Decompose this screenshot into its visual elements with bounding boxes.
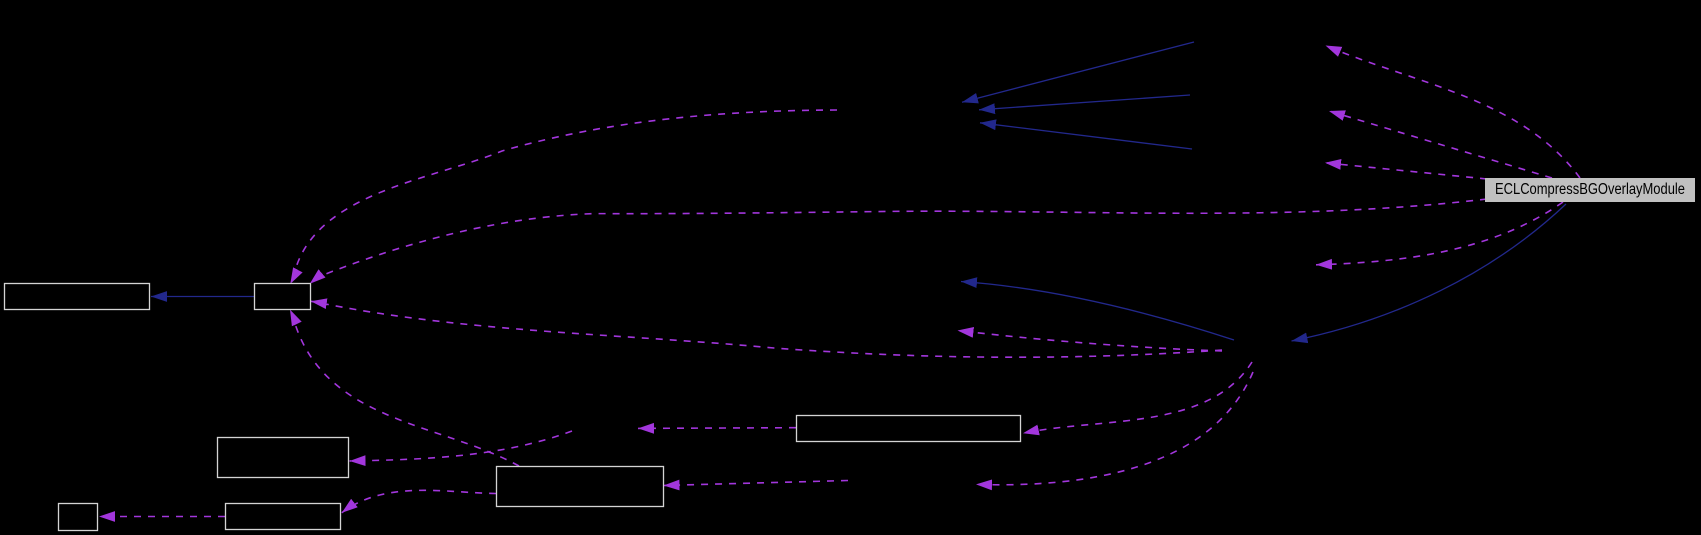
wire: dashed edge I2 to node D [664,481,849,486]
wire: dashed edge H to top target 1 [1326,46,1581,179]
node E [797,416,1021,442]
node A [5,284,150,310]
wire: blue edge hub node to invisible node Y [961,282,1234,341]
wire: dashed edge D to node G [342,490,496,512]
wire: dashed edge H to mid target [1316,202,1563,265]
node B [255,284,311,310]
node ECLCompressBGOverlayModule [1486,179,1695,202]
node C [218,438,349,478]
wire: dashed edge H to node B long [310,199,1487,284]
wire: blue edge invisible node to invisible node top 3 [980,123,1192,149]
wire: blue edge invisible node to invisible node top 1 [962,42,1194,102]
wire: blue edge invisible node to invisible node top 2 [979,95,1190,110]
wire: dashed edge invisible node X to node B arc [290,110,837,284]
wire: dashed edge hub to node E [1023,362,1252,433]
node G [226,504,341,530]
wire: dashed edge hub to invisible mid-left [958,331,1223,352]
wire: dashed edge G to node F [99,516,225,518]
svg-text:ECLCompressBGOverlayModule: ECLCompressBGOverlayModule [1495,181,1685,198]
wire: dashed edge H to top target 2 [1329,111,1552,178]
wire: blue edge node B to node A [151,296,254,298]
node D [497,467,664,507]
wire: dashed edge E to invisible node I3 [638,427,796,430]
wire: dashed edge D to node B bottom [290,310,519,466]
wire: dashed edge hub to node B right [311,301,1222,357]
node F [59,504,98,531]
wire: dashed edge H to top target 3 [1325,163,1487,179]
wire: dashed edge I3 to node C [350,431,573,461]
wire: dashed edge hub to invisible node I2 [976,372,1253,485]
wire: blue edge ECLCompressBGOverlayModule to hub node [1292,204,1567,341]
